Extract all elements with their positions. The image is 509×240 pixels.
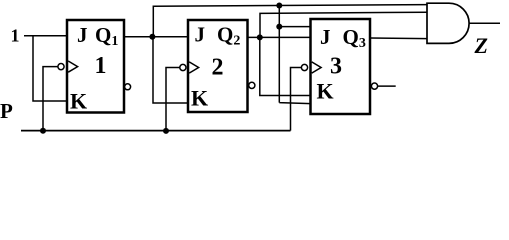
wire FF3 clock drop [291,68,302,131]
AND gate U4 [427,3,469,43]
junction dot Q2 [257,34,263,40]
svg-text:K: K [191,86,208,111]
wire Q2 to J3 [248,36,311,38]
clock triangle U1 [68,61,77,72]
Qbar bubble U3 [371,83,377,89]
wire Qbar3 stub [378,85,396,87]
svg-text:2: 2 [212,55,224,81]
wire FF1 clock drop [43,67,58,131]
flip-flop U1 box [67,20,124,113]
wire FF2 clock drop [166,68,180,131]
junction dot Q1 [149,34,155,40]
svg-text:Z: Z [474,33,488,58]
wire Q2 down branch to K3 first input [260,37,311,95]
junction dot line A to FF3 [276,3,282,9]
wire 1-to-J1 [24,35,67,37]
flip-flop U2 box [188,20,248,112]
wire Q3 to AND gate [370,37,427,40]
svg-text:Q2: Q2 [217,23,240,49]
clock bubble U3 [301,64,307,70]
wire Z output [469,22,500,24]
svg-text:Q1: Q1 [95,23,118,49]
junction dot P-FF1 [40,128,46,134]
wire Q1 drop to J3/K3 second inputs [279,6,310,104]
wire J3 second input [279,26,310,28]
wire Q1 to J2 [124,36,188,38]
svg-text:1: 1 [95,53,107,79]
clock bubble U2 [180,64,186,70]
Qbar bubble U1 [125,84,131,90]
clock bubble U1 [58,64,64,70]
svg-text:Q3: Q3 [343,25,366,51]
svg-text:K: K [317,79,334,104]
wire Q2 riser and line B to AND [260,12,427,37]
svg-text:K: K [70,89,87,114]
svg-text:J: J [320,25,331,49]
clock triangle U2 [189,62,198,73]
svg-text:3: 3 [330,54,342,80]
svg-text:P: P [0,99,13,123]
svg-text:1: 1 [11,26,20,46]
wire P clock line [21,130,291,132]
svg-text:J: J [195,23,206,47]
wire branch to K1 [33,36,66,101]
wire Q1 down branch to K2 [153,37,188,103]
junction dot J3 branch [276,24,282,30]
clock triangle U3 [312,62,321,73]
junction dot P-FF2 [163,128,169,134]
flip-flop U3 box [311,19,371,114]
svg-text:J: J [77,23,88,47]
Qbar bubble U2 [249,82,255,88]
wire Q1 riser and top line A [153,5,427,37]
